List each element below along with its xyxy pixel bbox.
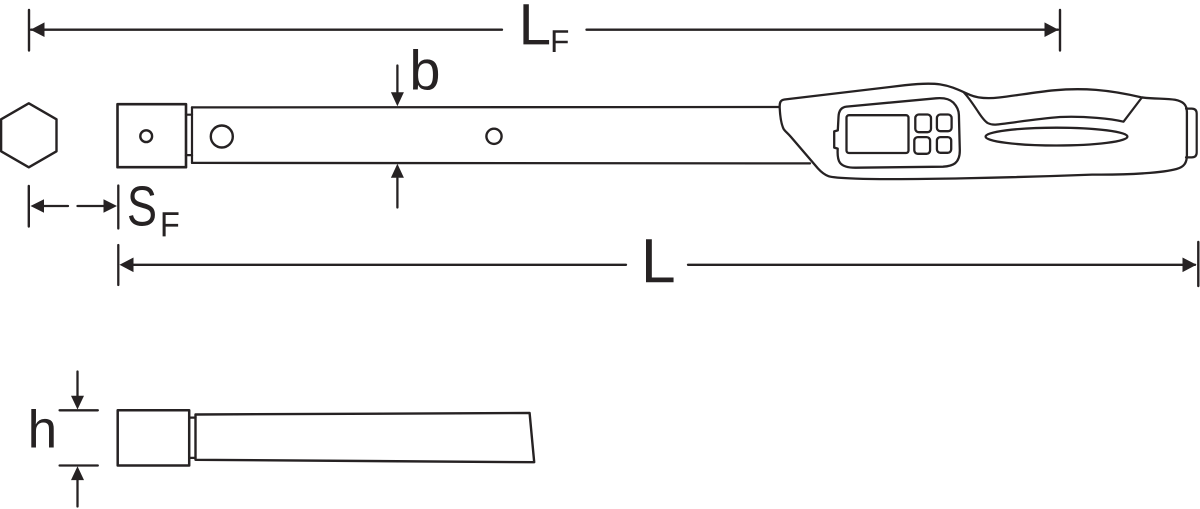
dimension LF left tick	[28, 10, 30, 51]
dimension SF left tick	[28, 186, 30, 227]
dimension L line left segment	[133, 264, 626, 266]
dimension LF right tick	[1059, 10, 1061, 51]
dimension b upper arrow	[391, 66, 404, 107]
dimension L right tick	[1197, 242, 1199, 286]
square plug-in head	[118, 104, 187, 167]
dimension SF left arrowhead	[31, 199, 45, 213]
side view tapered shank	[196, 413, 535, 462]
dimension SF right arrowhead	[104, 199, 118, 213]
display screen	[847, 115, 909, 153]
button bottom-right	[937, 137, 951, 153]
display housing	[834, 98, 960, 168]
dimension b lower arrow	[391, 164, 404, 208]
dimension SF line segments	[44, 205, 104, 207]
tube bottom edge	[192, 162, 810, 165]
dimension LF left arrowhead	[31, 22, 45, 37]
dimension h lower arrow	[71, 466, 84, 506]
dimension h label	[31, 409, 53, 447]
side view neck notch	[189, 418, 195, 458]
dimension h upper tick	[60, 409, 98, 411]
button bottom-left	[914, 137, 930, 154]
hexagon end fitting	[1, 103, 56, 167]
dimension LF label	[523, 4, 568, 52]
extension line of square left edge upper	[117, 186, 119, 229]
dimension b label	[413, 49, 438, 90]
handle outer outline	[780, 84, 1187, 179]
extension line of square left edge lower	[117, 245, 119, 285]
grip thumb ellipse	[986, 128, 1128, 146]
button top-left	[915, 115, 931, 133]
dimension h upper arrow	[71, 372, 84, 410]
tube hole small	[486, 129, 501, 144]
dimension SF label	[129, 186, 179, 236]
dimension LF line left segment	[31, 29, 502, 31]
dimension h lower tick	[60, 464, 98, 466]
tube hole large	[211, 126, 233, 148]
dimension L left arrowhead	[120, 258, 134, 273]
neck notch between head and tube	[186, 107, 192, 162]
handle end cap	[1186, 109, 1197, 158]
button top-right	[937, 115, 952, 132]
square head pin hole	[140, 130, 152, 142]
dimension L right arrowhead	[1183, 258, 1197, 273]
dimension L label	[646, 239, 674, 282]
dimension LF line right segment	[587, 29, 1059, 31]
dimension L line right segment	[688, 264, 1195, 266]
dimension LF right arrowhead	[1045, 22, 1059, 37]
side view head rectangle	[118, 410, 190, 465]
handle neck inner line	[964, 93, 1142, 125]
tube top edge	[192, 106, 780, 109]
